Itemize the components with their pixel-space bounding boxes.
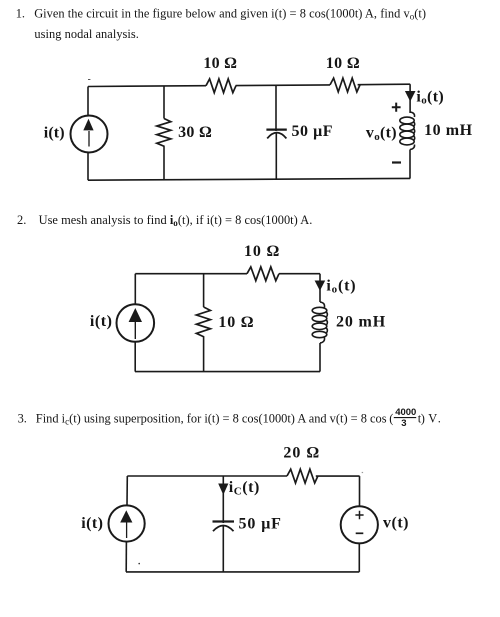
svg-text:10 mH: 10 mH — [424, 122, 473, 139]
svg-text:io(t): io(t) — [416, 88, 444, 106]
wire: circuit 1 capacitor branch upper — [275, 85, 277, 131]
capacitor 50 uF (circuit 3) — [213, 520, 235, 522]
svg-text:2.: 2. — [17, 213, 26, 227]
svg-text:io(t): io(t) — [326, 277, 356, 295]
current source i(t) (circuit 1) — [71, 116, 108, 153]
svg-text:50 μF: 50 μF — [239, 516, 282, 533]
wire: circuit 1 branch 2 upper — [163, 86, 165, 119]
wire: circuit 3 left branch lower — [125, 541, 127, 572]
svg-text:vo(t): vo(t) — [366, 124, 397, 142]
scan speck near circuit 3 top-right — [362, 472, 363, 473]
svg-text:i(t): i(t) — [44, 125, 65, 142]
wire: circuit 1 right branch upper — [409, 84, 411, 113]
resistor R 10 ohm (circuit 2, top) — [247, 267, 279, 281]
wire: circuit 1 top rail right segment — [358, 83, 411, 86]
wire: circuit 2 right branch upper — [319, 274, 321, 302]
svg-text:10 Ω: 10 Ω — [218, 314, 254, 331]
wire: circuit 2 left branch lower — [134, 342, 136, 372]
svg-text:i(t): i(t) — [81, 515, 103, 532]
wire: circuit 3 right branch lower — [358, 543, 360, 572]
svg-text:Find ic(t) using superposition: Find ic(t) using superposition, for i(t)… — [36, 411, 387, 426]
svg-text:Given the circuit in the figur: Given the circuit in the figure below an… — [34, 7, 426, 22]
fraction bar — [394, 417, 416, 419]
svg-text:i(t): i(t) — [90, 313, 113, 330]
svg-text:V: V — [428, 411, 437, 425]
svg-text:.: . — [438, 411, 441, 425]
resistor R 30 ohm (circuit 1, vertical) — [157, 119, 171, 147]
svg-text:4000: 4000 — [395, 407, 416, 418]
wire: circuit 2 bottom rail — [135, 371, 320, 373]
scan speck inside circuit 3 lower-left — [138, 563, 140, 565]
svg-text:using nodal analysis.: using nodal analysis. — [34, 27, 139, 41]
scan speck near circuit 1 top-left corner — [88, 79, 90, 80]
wire: circuit 3 bottom rail — [126, 571, 359, 573]
label plus sign (circuit 1) — [392, 103, 401, 112]
wire: circuit 1 bottom rail — [88, 178, 410, 180]
svg-text:(: ( — [389, 412, 393, 426]
wire: circuit 1 left branch upper — [87, 87, 89, 116]
resistor R 20 ohm (circuit 3, top) — [287, 469, 318, 483]
current arrow ic(t) (circuit 3) — [218, 484, 228, 495]
wire: circuit 2 top rail left segment — [135, 273, 247, 275]
svg-text:20 Ω: 20 Ω — [283, 445, 320, 462]
svg-text:10 Ω: 10 Ω — [326, 55, 360, 72]
svg-text:30 Ω: 30 Ω — [178, 124, 212, 141]
voltage source v(t) (circuit 3) — [341, 506, 378, 543]
svg-text:3: 3 — [401, 418, 406, 429]
current arrow io(t) (circuit 2) — [315, 281, 326, 291]
wire: circuit 3 capacitor branch lower — [222, 526, 224, 572]
svg-text:20 mH: 20 mH — [336, 314, 386, 331]
svg-text:10 Ω: 10 Ω — [203, 55, 237, 72]
wire: circuit 1 top rail middle segment — [236, 84, 330, 87]
wire: circuit 1 capacitor branch lower — [275, 134, 277, 180]
wire: circuit 2 left branch upper — [134, 274, 136, 305]
wire: circuit 1 right branch lower — [409, 150, 411, 179]
label minus sign (circuit 1) — [392, 161, 401, 163]
svg-text:50 μF: 50 μF — [292, 123, 334, 140]
current source i(t) (circuit 2) — [117, 304, 155, 342]
resistor R 10 ohm (circuit 1, top right) — [330, 78, 360, 92]
wire: circuit 2 middle branch lower — [203, 337, 205, 372]
wire: circuit 3 left branch upper — [126, 476, 128, 506]
svg-text:3.: 3. — [18, 411, 27, 425]
inductor 10 mH (circuit 1) — [400, 112, 415, 150]
svg-text:1.: 1. — [16, 7, 25, 21]
wire: circuit 1 left branch lower — [87, 153, 89, 181]
svg-text:): ) — [421, 412, 425, 426]
resistor R 10 ohm (circuit 1, top left) — [206, 79, 236, 93]
wire: circuit 3 top rail right segment — [316, 475, 360, 477]
svg-text:10 Ω: 10 Ω — [244, 243, 280, 260]
wire: circuit 1 top rail left segment — [88, 85, 206, 88]
svg-text:v(t): v(t) — [383, 515, 409, 532]
wire: circuit 3 right branch upper — [359, 476, 361, 506]
wire: circuit 1 branch 2 lower — [163, 147, 165, 180]
wire: circuit 2 middle branch upper — [203, 274, 205, 307]
current source i(t) (circuit 3) — [109, 505, 145, 541]
resistor R 10 ohm (circuit 2, vertical) — [196, 307, 210, 337]
wire: circuit 3 capacitor branch upper — [222, 476, 224, 523]
wire: circuit 3 top rail left segment — [127, 475, 287, 477]
current arrow io(t) (circuit 1) — [405, 91, 416, 102]
wire: circuit 2 right branch lower — [319, 343, 321, 372]
wire: circuit 2 top rail right segment — [279, 273, 320, 275]
capacitor 50 uF (circuit 1) — [266, 129, 286, 131]
svg-text:iC(t): iC(t) — [229, 479, 260, 498]
inductor 20 mH (circuit 2) — [312, 302, 327, 343]
